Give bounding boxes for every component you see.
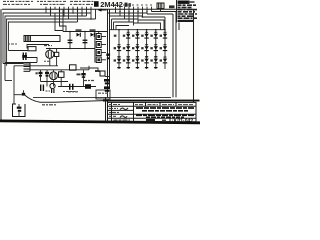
wire right staircase 3: [143, 16, 166, 18]
title block top rule: [103, 100, 200, 102]
matrix diode D15: [123, 57, 131, 64]
label R5: [95, 70, 100, 72]
matrix diode D11: [141, 44, 149, 51]
wire bus L3: [7, 19, 96, 66]
sheet top border: [2, 8, 194, 10]
node bus E: [58, 86, 96, 88]
matrix diode D9: [123, 44, 131, 51]
diode D17: [36, 70, 43, 82]
title signature 1: [120, 108, 128, 110]
label R6 text: [84, 80, 94, 82]
component on center bus: [106, 54, 110, 60]
wire S1 curve: [25, 95, 40, 102]
stamp suffix marks: [125, 3, 128, 7]
wire feed bus A: [62, 9, 64, 31]
connector J1 pin stubs: [46, 7, 91, 9]
bus right vertical pair: [172, 14, 174, 97]
battery B1 enclosure: [13, 104, 26, 117]
label S1: [42, 104, 56, 106]
title bottom stamp: [146, 119, 155, 122]
node bus B: [46, 48, 95, 50]
sheet right border: [193, 9, 195, 102]
bus center vertical 3: [111, 19, 113, 30]
stamp logo block: [94, 1, 99, 7]
connector J1 junction dots: [50, 10, 92, 20]
resistor R6: [82, 84, 94, 89]
parts list text row 2: [3, 3, 93, 5]
motor M1: [46, 49, 54, 66]
wire mid-left h1: [8, 50, 28, 52]
capacitor C7 electrolytic: [104, 86, 110, 91]
wire pin jog 1: [55, 13, 63, 31]
bus center vertical pair: [107, 9, 109, 97]
wire S1 horizontal: [14, 94, 22, 96]
label C5 text: [68, 91, 78, 93]
wire K1 drop: [160, 9, 162, 12]
relay K2 coil box: [70, 65, 77, 70]
wire T1 top lead: [98, 32, 100, 34]
matrix top dots: [118, 29, 166, 31]
wire bottom-mid 2: [40, 101, 103, 103]
switch S1 contact blob: [22, 93, 25, 96]
matrix diode D18: [150, 57, 158, 64]
node bus A: [63, 31, 108, 33]
resistor R5 box: [100, 71, 105, 76]
diode matrix top bus: [110, 29, 166, 31]
capacitor C1: [68, 32, 73, 49]
matrix diode D6: [150, 32, 158, 39]
junction dots bus A and B: [69, 31, 99, 50]
sheet bottom border: [0, 120, 200, 125]
wire right staircase 4: [138, 20, 164, 30]
shield enclosure: [96, 90, 110, 99]
matrix column 6: [164, 17, 166, 69]
label TP1: [169, 5, 175, 8]
svg-text:Ⓑ21·042: Ⓑ21·042: [173, 117, 194, 124]
wire upper mid-left: [27, 45, 49, 49]
label M1 text: [44, 60, 51, 62]
wire staircase center 4: [114, 21, 134, 23]
connector J2 pins: [116, 7, 152, 26]
matrix diode D7: [160, 32, 168, 39]
relay K1 contact box: [157, 3, 164, 9]
title block left border pair: [105, 97, 107, 121]
capacitor C4 can: [50, 70, 58, 87]
capacitor C9: [40, 85, 44, 92]
wire bus L2: [5, 16, 87, 81]
resistor R2 box: [55, 49, 59, 66]
wire staircase center 1: [108, 12, 148, 14]
connector J1 pins: [46, 9, 96, 22]
matrix label col1: [114, 35, 117, 37]
matrix diode D16: [132, 57, 140, 64]
transformer T1 winding 1: [96, 34, 101, 40]
connector J2 pin labels: [114, 4, 154, 6]
notes block top-right: [177, 0, 198, 30]
matrix column 2: [127, 30, 129, 69]
wire S1 vertical: [13, 66, 15, 104]
wire right staircase 2: [147, 13, 173, 15]
connector J2 junction dots: [119, 11, 147, 18]
transformer T1 winding 2: [96, 42, 101, 48]
matrix diode D14: [114, 57, 122, 64]
label text mid: [46, 90, 51, 92]
wire left low h: [3, 63, 24, 65]
title header small text: [135, 104, 193, 106]
diode D2 on bus: [90, 29, 96, 37]
matrix diode D13: [160, 44, 168, 51]
capacitor C5: [69, 84, 74, 90]
matrix diode D8: [114, 44, 122, 51]
matrix column 4: [146, 30, 148, 69]
matrix diode D3: [123, 32, 131, 39]
transformer T1 winding 4: [96, 57, 101, 63]
diode D1 on bus: [76, 29, 82, 37]
wire T1 taps: [101, 37, 106, 60]
wire bottom-mid 1: [33, 96, 171, 98]
matrix diode D19: [160, 57, 168, 64]
wire upper h q: [80, 68, 98, 71]
matrix diode D5: [141, 32, 149, 39]
wire feed q: [88, 66, 90, 70]
diode D18: [45, 70, 49, 87]
matrix link ticks: [117, 56, 157, 58]
wire C3 link: [27, 58, 37, 63]
connector P1 teeth: [24, 63, 31, 71]
diode D19: [77, 70, 86, 87]
title date mark: [162, 120, 166, 122]
label bottom text 1: [63, 92, 108, 94]
node bus D: [30, 69, 89, 71]
arrow net label: [98, 8, 107, 11]
title block table frame: [108, 102, 197, 121]
matrix diode D17: [141, 57, 149, 64]
wire right staircase 5: [134, 23, 161, 30]
capacitor C6 electrolytic: [104, 79, 110, 84]
fuse F1 box: [24, 36, 60, 42]
wire bus L1: [3, 13, 91, 64]
wire mid h3: [14, 65, 58, 67]
matrix diode D4: [132, 32, 140, 39]
wire r5 to bus: [105, 76, 110, 78]
resistor R4 box: [59, 70, 65, 87]
wire mid low h: [41, 81, 69, 83]
label VR1 text: [8, 44, 52, 46]
matrix column 1: [118, 30, 120, 69]
junction dot motor: [49, 48, 51, 50]
wire staircase center 2: [110, 15, 143, 17]
title bold name line 1: [136, 108, 194, 117]
title signature 2: [120, 116, 127, 118]
wire L2 stub: [5, 80, 12, 82]
wire bus L4: [8, 22, 77, 51]
capacitor C3: [22, 53, 27, 61]
matrix diode D10: [132, 44, 140, 51]
matrix column 3: [136, 30, 138, 69]
sheet left border: [0, 9, 2, 121]
matrix column 5: [155, 30, 157, 69]
title row texts left: [109, 105, 130, 121]
matrix diode D12: [150, 44, 158, 51]
wire right staircase 1: [152, 11, 177, 13]
wire staircase center 3: [112, 18, 139, 20]
parts list text row 1: [3, 0, 95, 2]
wire pin jog 2: [60, 22, 67, 32]
resistor R1 box: [28, 47, 36, 51]
capacitor C2: [83, 32, 88, 49]
transformer T1 winding 3: [96, 50, 101, 56]
capacitor C10 can: [50, 83, 55, 93]
bus center vertical 4: [113, 22, 115, 30]
wire mid-left h2: [5, 62, 37, 64]
matrix column end marks: [117, 67, 157, 68]
wire S1 stub: [23, 90, 25, 93]
transformer T1 primary rail: [94, 32, 96, 63]
wire staircase center 5: [116, 26, 129, 30]
